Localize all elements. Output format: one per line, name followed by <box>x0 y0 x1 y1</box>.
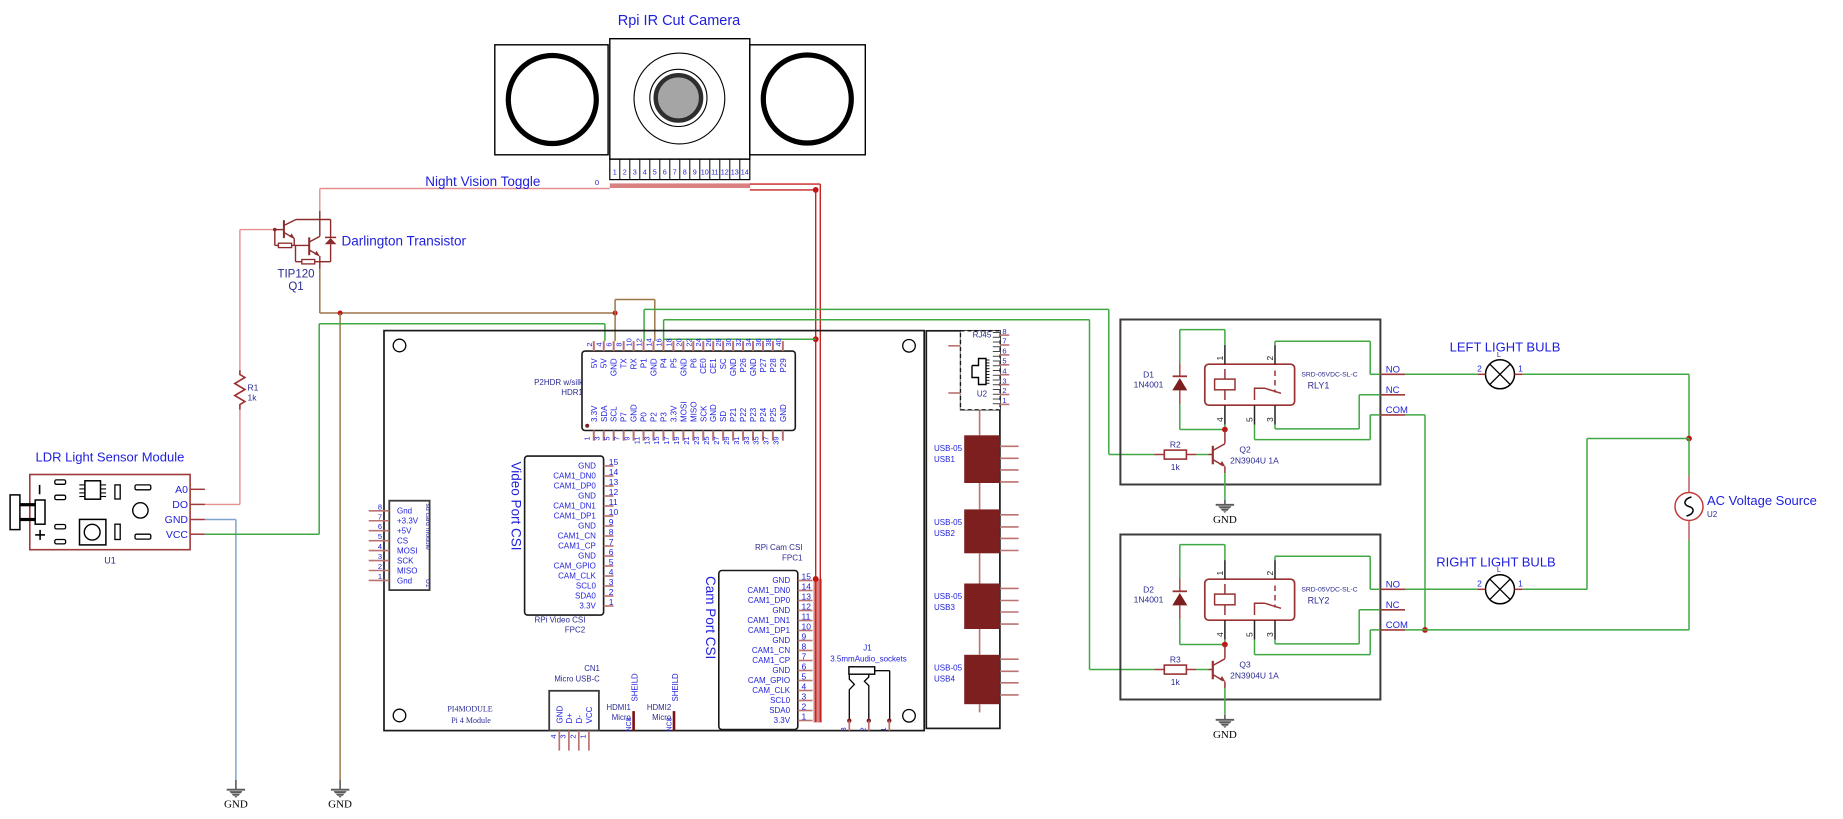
svg-text:40: 40 <box>774 338 783 346</box>
svg-text:12: 12 <box>721 168 729 177</box>
svg-text:4: 4 <box>1215 417 1225 422</box>
svg-text:0: 0 <box>595 178 599 187</box>
svg-text:11: 11 <box>802 611 811 621</box>
svg-text:TX: TX <box>620 358 629 369</box>
svg-text:30: 30 <box>724 338 733 346</box>
svg-text:11: 11 <box>609 497 618 507</box>
svg-text:32: 32 <box>734 338 743 346</box>
svg-text:3: 3 <box>593 436 602 440</box>
svg-text:A0: A0 <box>175 484 188 496</box>
svg-text:3: 3 <box>378 552 382 561</box>
svg-text:14: 14 <box>645 338 654 346</box>
svg-text:37: 37 <box>762 436 771 444</box>
svg-text:1: 1 <box>579 735 588 739</box>
svg-text:10: 10 <box>701 168 709 177</box>
svg-text:P7: P7 <box>620 412 629 422</box>
svg-text:9: 9 <box>622 436 631 440</box>
svg-text:COM: COM <box>1386 405 1408 416</box>
svg-text:9: 9 <box>802 631 807 641</box>
svg-text:5: 5 <box>603 436 612 440</box>
svg-text:D+: D+ <box>565 713 574 724</box>
svg-text:CAM_CLK: CAM_CLK <box>752 686 790 695</box>
svg-text:CAM1_DP0: CAM1_DP0 <box>748 596 791 605</box>
svg-text:GND: GND <box>679 358 688 376</box>
svg-text:HDR1: HDR1 <box>561 388 583 397</box>
svg-text:USB4: USB4 <box>934 675 955 684</box>
svg-text:SHEILD: SHEILD <box>671 673 680 702</box>
svg-text:SRD-05VDC-SL-C: SRD-05VDC-SL-C <box>1301 587 1357 594</box>
svg-text:7: 7 <box>378 512 382 521</box>
svg-text:USB-05: USB-05 <box>934 518 963 527</box>
svg-text:34: 34 <box>744 338 753 346</box>
svg-text:26: 26 <box>704 338 713 346</box>
svg-text:GND: GND <box>650 358 659 376</box>
svg-text:6: 6 <box>605 342 614 346</box>
svg-text:CE0: CE0 <box>699 358 708 374</box>
svg-text:2: 2 <box>1477 578 1482 588</box>
svg-text:GND: GND <box>772 666 790 675</box>
svg-text:2: 2 <box>1477 363 1482 373</box>
svg-text:HDMI2: HDMI2 <box>647 703 671 712</box>
svg-text:P28: P28 <box>769 358 778 373</box>
svg-text:1: 1 <box>1002 396 1006 405</box>
svg-text:2: 2 <box>623 168 627 177</box>
svg-text:31: 31 <box>732 436 741 444</box>
svg-text:Q1: Q1 <box>288 281 303 293</box>
svg-text:CAM1_DN1: CAM1_DN1 <box>747 616 790 625</box>
svg-text:SCL: SCL <box>610 406 619 422</box>
svg-text:MISO: MISO <box>689 402 698 422</box>
svg-text:P5: P5 <box>669 358 678 368</box>
svg-text:2: 2 <box>378 562 382 571</box>
svg-text:2: 2 <box>1265 356 1275 361</box>
svg-text:R1: R1 <box>248 383 259 393</box>
svg-text:1: 1 <box>1518 363 1523 373</box>
svg-text:39: 39 <box>772 436 781 444</box>
svg-text:Gnd: Gnd <box>397 576 412 585</box>
svg-text:NC: NC <box>1386 385 1400 396</box>
svg-text:23: 23 <box>692 436 701 444</box>
svg-text:8: 8 <box>615 342 624 346</box>
svg-text:29: 29 <box>722 436 731 444</box>
svg-text:3: 3 <box>1265 417 1275 422</box>
svg-text:5V: 5V <box>590 358 599 368</box>
svg-text:Video Port CSI: Video Port CSI <box>509 462 524 551</box>
svg-text:SDA0: SDA0 <box>769 706 790 715</box>
svg-text:GND: GND <box>1213 729 1237 741</box>
svg-text:11: 11 <box>632 436 641 444</box>
svg-text:8: 8 <box>609 527 614 537</box>
svg-text:10: 10 <box>609 507 619 517</box>
svg-text:13: 13 <box>731 168 739 177</box>
svg-text:3.3V: 3.3V <box>590 405 599 422</box>
svg-text:27: 27 <box>712 436 721 444</box>
svg-text:SDA: SDA <box>600 405 609 422</box>
svg-text:GND: GND <box>578 522 596 531</box>
svg-text:GND: GND <box>709 404 718 422</box>
svg-text:Cam Port CSI: Cam Port CSI <box>703 576 718 659</box>
svg-text:USB-05: USB-05 <box>934 664 963 673</box>
svg-text:MISO: MISO <box>397 566 417 575</box>
svg-text:38: 38 <box>764 338 773 346</box>
svg-text:GND: GND <box>610 358 619 376</box>
svg-text:4: 4 <box>378 542 382 551</box>
svg-text:1: 1 <box>609 597 614 607</box>
svg-text:GND: GND <box>578 462 596 471</box>
svg-text:CAM_GPIO: CAM_GPIO <box>748 676 790 685</box>
svg-text:FPC1: FPC1 <box>782 554 803 563</box>
svg-text:RLY1: RLY1 <box>1308 381 1330 391</box>
svg-text:2: 2 <box>1002 386 1006 395</box>
svg-text:CAM1_DN0: CAM1_DN0 <box>747 586 790 595</box>
svg-text:35: 35 <box>752 436 761 444</box>
svg-text:25: 25 <box>702 436 711 444</box>
svg-text:RPi Video CSI: RPi Video CSI <box>535 616 586 625</box>
svg-text:GND: GND <box>772 576 790 585</box>
svg-text:3.3V: 3.3V <box>579 602 596 611</box>
svg-text:5: 5 <box>802 671 807 681</box>
svg-text:13: 13 <box>802 591 812 601</box>
svg-text:1: 1 <box>378 572 382 581</box>
svg-text:Darlington Transistor: Darlington Transistor <box>342 234 467 249</box>
svg-text:4: 4 <box>1215 632 1225 637</box>
svg-text:AC Voltage Source: AC Voltage Source <box>1707 493 1817 508</box>
svg-text:5: 5 <box>1245 632 1255 637</box>
svg-text:NO: NO <box>1386 364 1400 375</box>
svg-text:P2HDR w/silk: P2HDR w/silk <box>534 378 584 387</box>
svg-text:3.3V: 3.3V <box>774 716 791 725</box>
svg-text:1N4001: 1N4001 <box>1134 380 1164 390</box>
svg-text:Gnd: Gnd <box>397 507 412 516</box>
svg-text:TIP120: TIP120 <box>277 269 314 281</box>
svg-text:17: 17 <box>662 436 671 444</box>
svg-text:5: 5 <box>609 557 614 567</box>
svg-text:3.5mmAudio_sockets: 3.5mmAudio_sockets <box>830 655 906 664</box>
svg-text:5: 5 <box>378 532 382 541</box>
svg-text:Q2: Q2 <box>1239 445 1251 455</box>
svg-text:6: 6 <box>663 168 667 177</box>
svg-text:3: 3 <box>802 691 807 701</box>
svg-text:P2: P2 <box>650 412 659 422</box>
svg-text:P26: P26 <box>739 358 748 373</box>
svg-text:RX: RX <box>630 358 639 370</box>
svg-text:GND: GND <box>555 706 564 724</box>
svg-text:4: 4 <box>1002 366 1006 375</box>
svg-text:8: 8 <box>802 641 807 651</box>
svg-text:21: 21 <box>682 436 691 444</box>
svg-text:1N4001: 1N4001 <box>1134 595 1164 605</box>
svg-text:9: 9 <box>693 168 697 177</box>
svg-text:Micro USB-C: Micro USB-C <box>554 675 600 684</box>
svg-text:MOSI: MOSI <box>679 402 688 422</box>
svg-text:P27: P27 <box>759 358 768 373</box>
svg-text:3: 3 <box>559 735 568 739</box>
svg-text:L: L <box>1497 350 1501 359</box>
svg-text:LDR Light Sensor Module: LDR Light Sensor Module <box>36 450 185 465</box>
svg-text:4: 4 <box>549 735 558 739</box>
svg-text:RLY2: RLY2 <box>1308 596 1330 606</box>
svg-text:COM: COM <box>1386 620 1408 631</box>
svg-text:GND: GND <box>729 358 738 376</box>
svg-text:1: 1 <box>1215 356 1225 361</box>
svg-text:R2: R2 <box>1170 440 1181 450</box>
svg-text:13: 13 <box>642 436 651 444</box>
svg-text:3: 3 <box>1265 632 1275 637</box>
svg-text:5: 5 <box>1245 417 1255 422</box>
svg-text:Night Vision Toggle: Night Vision Toggle <box>425 174 540 189</box>
svg-text:VCC: VCC <box>166 529 189 541</box>
svg-text:13: 13 <box>609 477 619 487</box>
svg-text:CAM1_CP: CAM1_CP <box>752 656 790 665</box>
svg-text:4: 4 <box>802 681 807 691</box>
svg-text:LEFT LIGHT BULB: LEFT LIGHT BULB <box>1450 340 1561 355</box>
svg-text:P3: P3 <box>659 412 668 422</box>
svg-text:P0: P0 <box>640 412 649 422</box>
svg-text:P22: P22 <box>739 407 748 422</box>
svg-text:1k: 1k <box>248 393 258 403</box>
svg-text:U2: U2 <box>1707 510 1718 519</box>
svg-text:5V: 5V <box>600 358 609 368</box>
svg-text:P25: P25 <box>769 407 778 422</box>
svg-text:12: 12 <box>635 338 644 346</box>
svg-text:GND: GND <box>779 404 788 422</box>
svg-text:14: 14 <box>609 467 619 477</box>
svg-text:18: 18 <box>664 338 673 346</box>
svg-text:NC8: NC8 <box>667 717 674 731</box>
svg-text:6: 6 <box>378 522 382 531</box>
svg-text:3: 3 <box>633 168 637 177</box>
svg-text:1: 1 <box>879 727 888 731</box>
svg-text:FPC2: FPC2 <box>565 626 586 635</box>
svg-text:7: 7 <box>802 651 807 661</box>
svg-text:MOSI: MOSI <box>397 546 417 555</box>
svg-text:CAM1_DP0: CAM1_DP0 <box>554 482 597 491</box>
svg-text:GND: GND <box>578 492 596 501</box>
svg-text:U2: U2 <box>977 390 988 399</box>
svg-text:PI4MODULE: PI4MODULE <box>447 705 492 714</box>
svg-text:15: 15 <box>802 571 812 581</box>
svg-text:12: 12 <box>802 601 812 611</box>
svg-text:2: 2 <box>585 342 594 346</box>
svg-text:SHEILD: SHEILD <box>631 673 640 702</box>
svg-text:2N3904U 1A: 2N3904U 1A <box>1230 671 1279 681</box>
svg-text:7: 7 <box>612 436 621 440</box>
svg-text:8: 8 <box>1002 327 1006 336</box>
svg-text:SCK: SCK <box>397 556 414 565</box>
svg-text:2N3904U 1A: 2N3904U 1A <box>1230 456 1279 466</box>
svg-text:CAM1_DN0: CAM1_DN0 <box>553 472 596 481</box>
svg-text:3: 3 <box>839 727 848 731</box>
svg-text:sd card module: sd card module <box>424 504 431 551</box>
svg-text:1: 1 <box>1215 571 1225 576</box>
svg-text:SCL0: SCL0 <box>576 582 597 591</box>
svg-text:24: 24 <box>694 338 703 346</box>
svg-text:5: 5 <box>653 168 657 177</box>
svg-text:U1: U1 <box>424 579 431 588</box>
svg-text:10: 10 <box>802 621 812 631</box>
svg-text:USB-05: USB-05 <box>934 592 963 601</box>
svg-text:4: 4 <box>643 168 647 177</box>
svg-text:6: 6 <box>802 661 807 671</box>
svg-text:DO: DO <box>172 499 188 511</box>
svg-text:GND: GND <box>772 636 790 645</box>
svg-text:USB2: USB2 <box>934 529 955 538</box>
svg-text:RJ45: RJ45 <box>973 331 992 340</box>
svg-text:VCC: VCC <box>585 706 594 723</box>
svg-text:5: 5 <box>1002 357 1006 366</box>
svg-text:U1: U1 <box>104 556 116 566</box>
svg-text:NO: NO <box>1386 579 1400 590</box>
svg-text:3: 3 <box>1002 376 1006 385</box>
svg-text:SRD-05VDC-SL-C: SRD-05VDC-SL-C <box>1301 372 1357 379</box>
svg-text:14: 14 <box>802 581 812 591</box>
svg-text:20: 20 <box>674 338 683 346</box>
svg-text:CAM1_DP1: CAM1_DP1 <box>554 512 597 521</box>
svg-text:GND: GND <box>224 799 248 811</box>
svg-text:14: 14 <box>741 168 749 177</box>
svg-text:P4: P4 <box>659 358 668 368</box>
svg-text:GND: GND <box>749 358 758 376</box>
svg-text:1: 1 <box>583 436 592 440</box>
svg-text:CAM1_CN: CAM1_CN <box>558 532 596 541</box>
svg-text:Q3: Q3 <box>1239 660 1251 670</box>
svg-text:19: 19 <box>672 436 681 444</box>
svg-text:P23: P23 <box>749 407 758 422</box>
svg-text:Pi 4 Module: Pi 4 Module <box>451 716 491 725</box>
svg-text:NC8: NC8 <box>626 717 633 731</box>
svg-text:CAM1_DN1: CAM1_DN1 <box>553 502 596 511</box>
svg-text:36: 36 <box>754 338 763 346</box>
svg-text:16: 16 <box>654 338 663 346</box>
svg-text:CAM_GPIO: CAM_GPIO <box>554 562 596 571</box>
svg-text:+3.3V: +3.3V <box>397 517 419 526</box>
svg-text:P6: P6 <box>689 358 698 368</box>
svg-text:6: 6 <box>609 547 614 557</box>
svg-text:NC: NC <box>1386 600 1400 611</box>
svg-text:CAM1_CN: CAM1_CN <box>752 646 790 655</box>
svg-text:P24: P24 <box>759 407 768 422</box>
svg-text:CE1: CE1 <box>709 358 718 374</box>
svg-text:12: 12 <box>609 487 619 497</box>
svg-text:USB-05: USB-05 <box>934 444 963 453</box>
svg-text:CS: CS <box>397 536 408 545</box>
svg-text:J1: J1 <box>863 644 872 653</box>
svg-text:P29: P29 <box>779 358 788 373</box>
svg-text:SD: SD <box>719 411 728 422</box>
svg-text:D2: D2 <box>1143 584 1154 594</box>
svg-text:2: 2 <box>569 735 578 739</box>
svg-text:RPi Cam CSI: RPi Cam CSI <box>755 543 803 552</box>
svg-text:6: 6 <box>1002 347 1006 356</box>
svg-text:1: 1 <box>1518 578 1523 588</box>
svg-text:CN1: CN1 <box>584 664 600 673</box>
svg-text:8: 8 <box>378 502 382 511</box>
svg-text:1k: 1k <box>1171 677 1181 687</box>
svg-text:4: 4 <box>609 567 614 577</box>
svg-text:7: 7 <box>673 168 677 177</box>
svg-text:7: 7 <box>609 537 614 547</box>
svg-text:Rpi IR Cut Camera: Rpi IR Cut Camera <box>618 13 741 29</box>
svg-text:8: 8 <box>683 168 687 177</box>
svg-text:11: 11 <box>711 168 718 177</box>
svg-text:SC: SC <box>719 358 728 369</box>
svg-text:HDMI1: HDMI1 <box>607 703 631 712</box>
svg-text:22: 22 <box>684 338 693 346</box>
svg-text:10: 10 <box>625 338 634 346</box>
svg-text:GND: GND <box>630 404 639 422</box>
svg-text:3.3V: 3.3V <box>669 405 678 422</box>
svg-text:CAM_CLK: CAM_CLK <box>558 572 596 581</box>
svg-text:33: 33 <box>742 436 751 444</box>
svg-text:3: 3 <box>609 577 614 587</box>
svg-text:4: 4 <box>595 342 604 346</box>
svg-text:D1: D1 <box>1143 369 1154 379</box>
svg-text:1k: 1k <box>1171 462 1181 472</box>
svg-text:P1: P1 <box>640 358 649 368</box>
svg-text:2: 2 <box>859 727 868 731</box>
svg-text:2: 2 <box>1265 571 1275 576</box>
svg-text:9: 9 <box>609 517 614 527</box>
svg-text:28: 28 <box>714 338 723 346</box>
svg-text:1: 1 <box>613 168 617 177</box>
svg-text:CAM1_DP1: CAM1_DP1 <box>748 626 791 635</box>
svg-text:USB3: USB3 <box>934 603 955 612</box>
svg-text:15: 15 <box>609 457 619 467</box>
svg-text:7: 7 <box>1002 337 1006 346</box>
svg-text:GND: GND <box>165 514 189 526</box>
svg-text:USB1: USB1 <box>934 455 955 464</box>
svg-text:CAM1_CP: CAM1_CP <box>558 542 596 551</box>
svg-text:GND: GND <box>772 606 790 615</box>
svg-text:15: 15 <box>652 436 661 444</box>
svg-text:1: 1 <box>802 711 807 721</box>
svg-text:SCK: SCK <box>699 405 708 422</box>
svg-text:2: 2 <box>609 587 614 597</box>
svg-text:D-: D- <box>575 715 584 724</box>
svg-text:GND: GND <box>328 799 352 811</box>
svg-text:SCL0: SCL0 <box>770 696 791 705</box>
svg-text:GND: GND <box>1213 514 1237 526</box>
svg-text:2: 2 <box>802 701 807 711</box>
svg-text:P21: P21 <box>729 407 738 422</box>
svg-text:SDA0: SDA0 <box>575 592 596 601</box>
svg-text:R3: R3 <box>1170 655 1181 665</box>
svg-text:L: L <box>1497 565 1501 574</box>
svg-text:+5V: +5V <box>397 527 412 536</box>
svg-text:GND: GND <box>578 552 596 561</box>
